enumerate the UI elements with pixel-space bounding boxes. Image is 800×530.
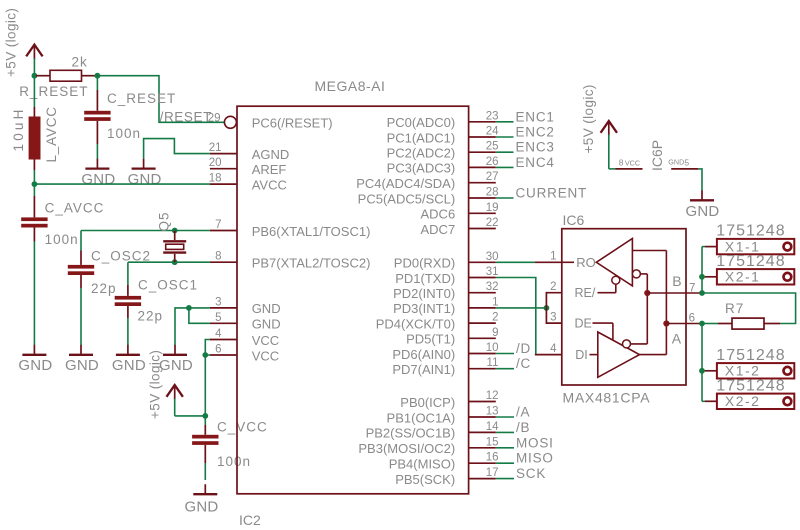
svg-text:8: 8 <box>619 158 624 168</box>
svg-text:PB6(XTAL1/TOSC1): PB6(XTAL1/TOSC1) <box>252 224 371 239</box>
svg-text:14: 14 <box>486 421 499 433</box>
svg-text:21: 21 <box>209 142 222 154</box>
svg-text:PB4(MISO): PB4(MISO) <box>389 457 455 472</box>
svg-text:PB3(MOSI/OC2): PB3(MOSI/OC2) <box>358 441 455 456</box>
svg-text:RO: RO <box>576 255 596 270</box>
svg-text:1: 1 <box>492 296 498 308</box>
svg-text:12: 12 <box>486 390 499 402</box>
svg-text:/A: /A <box>516 405 530 420</box>
svg-text:PB7(XTAL2/TOSC2): PB7(XTAL2/TOSC2) <box>252 256 371 271</box>
svg-text:11: 11 <box>487 357 499 369</box>
svg-text:2k: 2k <box>72 55 88 70</box>
svg-text:VCC: VCC <box>252 333 279 348</box>
svg-text:PC2(ADC2): PC2(ADC2) <box>387 146 456 161</box>
svg-text:SCK: SCK <box>516 466 546 481</box>
svg-text:PB0(ICP): PB0(ICP) <box>400 395 455 410</box>
svg-text:C_OSC2: C_OSC2 <box>91 249 151 264</box>
svg-text:17: 17 <box>486 467 499 479</box>
svg-text:ADC6: ADC6 <box>421 207 456 222</box>
svg-text:PD4(XCK/T0): PD4(XCK/T0) <box>376 316 455 331</box>
svg-text:AREF: AREF <box>252 162 287 177</box>
svg-text:PB2(SS/OC1B): PB2(SS/OC1B) <box>366 426 456 441</box>
svg-text:10: 10 <box>486 342 499 354</box>
svg-text:2: 2 <box>550 281 556 293</box>
svg-text:L_AVCC: L_AVCC <box>44 106 59 162</box>
svg-text:RE/: RE/ <box>575 286 596 300</box>
svg-text:AVCC: AVCC <box>252 177 287 192</box>
svg-text:5: 5 <box>684 158 689 168</box>
svg-text:ENC1: ENC1 <box>516 109 555 124</box>
svg-text:+5V (logic): +5V (logic) <box>3 8 18 77</box>
svg-text:C_RESET: C_RESET <box>107 91 176 106</box>
svg-text:22p: 22p <box>91 281 117 296</box>
svg-text:1751248: 1751248 <box>716 377 785 394</box>
svg-text:PD3(INT1): PD3(INT1) <box>393 301 455 316</box>
svg-text:ENC4: ENC4 <box>516 155 555 170</box>
svg-text:PB1(OC1A): PB1(OC1A) <box>387 410 456 425</box>
svg-text:GND: GND <box>252 317 281 332</box>
svg-text:MISO: MISO <box>516 451 554 466</box>
svg-text:1751248: 1751248 <box>716 347 785 364</box>
svg-text:/C: /C <box>516 356 531 371</box>
svg-text:22p: 22p <box>138 309 164 324</box>
svg-text:GND: GND <box>252 301 281 316</box>
svg-text:PD5(T1): PD5(T1) <box>406 332 455 347</box>
svg-text:23: 23 <box>486 110 499 122</box>
svg-text:PC3(ADC3): PC3(ADC3) <box>387 161 456 176</box>
svg-text:18: 18 <box>209 173 222 185</box>
svg-text:29: 29 <box>208 112 221 124</box>
svg-text:6: 6 <box>215 344 221 356</box>
svg-text:X1-2: X1-2 <box>725 363 761 379</box>
svg-text:31: 31 <box>486 266 499 278</box>
svg-text:IC6: IC6 <box>563 212 585 228</box>
svg-text:GND: GND <box>18 357 52 374</box>
svg-text:PD7(AIN1): PD7(AIN1) <box>392 362 455 377</box>
svg-text:ENC2: ENC2 <box>516 125 555 140</box>
svg-text:27: 27 <box>486 171 499 183</box>
svg-text:IC6P: IC6P <box>649 140 665 171</box>
svg-text:4: 4 <box>550 343 557 355</box>
svg-text:GND: GND <box>65 357 99 374</box>
svg-text:AGND: AGND <box>252 147 290 162</box>
svg-text:100n: 100n <box>217 454 251 469</box>
svg-text:VCC: VCC <box>252 348 279 363</box>
svg-text:16: 16 <box>486 452 499 464</box>
svg-text:7: 7 <box>689 283 695 295</box>
svg-text:MOSI: MOSI <box>516 435 554 450</box>
svg-text:ENC3: ENC3 <box>516 140 555 155</box>
svg-text:15: 15 <box>486 436 499 448</box>
svg-text:25: 25 <box>486 141 499 153</box>
svg-text:24: 24 <box>486 126 499 138</box>
svg-text:GND: GND <box>128 171 162 188</box>
svg-text:26: 26 <box>486 156 499 168</box>
svg-text:X2-1: X2-1 <box>725 269 761 285</box>
svg-text:1751248: 1751248 <box>716 253 785 270</box>
svg-text:C_OSC1: C_OSC1 <box>138 278 198 293</box>
svg-text:5: 5 <box>215 312 221 324</box>
svg-text:10uH: 10uH <box>11 106 26 151</box>
svg-text:PC5(ADC5/SCL): PC5(ADC5/SCL) <box>358 191 456 206</box>
svg-text:A: A <box>672 331 682 347</box>
svg-text:20: 20 <box>209 157 222 169</box>
svg-text:PC1(ADC1): PC1(ADC1) <box>387 130 456 145</box>
svg-text:+5V (logic): +5V (logic) <box>581 84 596 153</box>
svg-text:PD1(TXD): PD1(TXD) <box>395 271 455 286</box>
svg-text:/D: /D <box>516 341 531 356</box>
svg-text:X2-2: X2-2 <box>725 393 761 409</box>
svg-text:/B: /B <box>516 420 530 435</box>
svg-text:DE: DE <box>575 317 592 331</box>
svg-text:1751248: 1751248 <box>716 223 785 240</box>
svg-text:C_AVCC: C_AVCC <box>45 201 105 216</box>
svg-text:100n: 100n <box>107 126 141 141</box>
svg-text:GND: GND <box>159 357 193 374</box>
svg-text:100n: 100n <box>45 232 79 247</box>
svg-text:Q5: Q5 <box>157 211 172 231</box>
svg-text:GND: GND <box>668 158 684 167</box>
svg-text:ADC7: ADC7 <box>421 222 456 237</box>
svg-text:PD2(INT0): PD2(INT0) <box>393 286 455 301</box>
svg-text:6: 6 <box>689 313 695 325</box>
svg-text:R_RESET: R_RESET <box>19 84 88 99</box>
svg-text:7: 7 <box>215 219 221 231</box>
svg-text:28: 28 <box>486 187 499 199</box>
svg-text:+5V (logic): +5V (logic) <box>148 350 163 419</box>
svg-text:GND: GND <box>81 171 115 188</box>
svg-text:13: 13 <box>486 406 499 418</box>
svg-text:2: 2 <box>492 312 498 324</box>
svg-text:B: B <box>672 273 681 289</box>
svg-text:PD0(RXD): PD0(RXD) <box>394 256 455 271</box>
svg-text:VCC: VCC <box>625 158 640 167</box>
svg-text:MEGA8-AI: MEGA8-AI <box>315 78 386 94</box>
svg-text:3: 3 <box>550 311 556 323</box>
svg-text:4: 4 <box>215 328 222 340</box>
svg-text:19: 19 <box>486 202 499 214</box>
svg-text:DI: DI <box>575 348 588 362</box>
svg-text:R7: R7 <box>725 301 744 316</box>
svg-text:3: 3 <box>215 296 221 308</box>
svg-text:PC0(ADC0): PC0(ADC0) <box>387 115 456 130</box>
svg-text:32: 32 <box>486 281 499 293</box>
svg-text:CURRENT: CURRENT <box>516 186 588 201</box>
svg-text:GND: GND <box>112 357 146 374</box>
svg-text:8: 8 <box>215 251 221 263</box>
svg-text:/RESET: /RESET <box>160 109 212 124</box>
svg-text:IC2: IC2 <box>239 512 261 528</box>
svg-text:PC6(/RESET): PC6(/RESET) <box>252 115 333 130</box>
svg-text:C_VCC: C_VCC <box>217 420 268 435</box>
svg-text:MAX481CPA: MAX481CPA <box>563 390 651 406</box>
svg-text:22: 22 <box>486 217 499 229</box>
svg-text:PC4(ADC4/SDA): PC4(ADC4/SDA) <box>356 176 455 191</box>
svg-text:GND: GND <box>686 203 720 220</box>
svg-text:GND: GND <box>185 498 219 515</box>
svg-text:9: 9 <box>492 327 498 339</box>
svg-text:PB5(SCK): PB5(SCK) <box>395 472 455 487</box>
svg-text:1: 1 <box>550 251 556 263</box>
svg-text:30: 30 <box>486 251 499 263</box>
svg-text:PD6(AIN0): PD6(AIN0) <box>392 347 455 362</box>
